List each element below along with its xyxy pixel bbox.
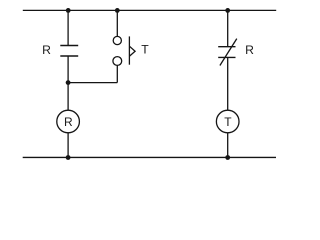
junction: top rail / left branch bbox=[66, 8, 71, 13]
pushbutton T actuator arrow bbox=[129, 46, 135, 56]
junction: top rail / pushbutton branch bbox=[115, 8, 120, 13]
junction: top rail / right branch bbox=[225, 8, 230, 13]
wire: timed contact down to coil T bbox=[227, 57, 229, 110]
pushbutton T contact circles bbox=[113, 36, 122, 65]
label R (left contact) bbox=[42, 43, 51, 57]
coil T (timer coil) bbox=[216, 110, 239, 133]
top rail bbox=[23, 9, 276, 11]
svg-text:T: T bbox=[141, 43, 149, 57]
wire: top rail down to pushbutton T bbox=[116, 10, 118, 36]
contact R (relay contact, capacitor-style plates) bbox=[60, 46, 78, 57]
svg-text:R: R bbox=[64, 115, 73, 129]
wire: coil R down to bottom rail bbox=[67, 133, 69, 158]
contact R timed (plates with diagonal slash) bbox=[218, 39, 237, 66]
label T (pushbutton) bbox=[141, 43, 149, 57]
svg-text:R: R bbox=[245, 43, 254, 57]
wire: junction A down to coil R bbox=[67, 83, 69, 111]
wire: top rail down to contact R bbox=[67, 10, 69, 45]
label R (right contact) bbox=[245, 43, 254, 57]
pushbutton T actuator bar bbox=[128, 36, 130, 64]
junction: bottom rail / coil T bbox=[225, 155, 230, 160]
wire: top rail down to timed contact R bbox=[227, 10, 229, 46]
wire: coil T down to bottom rail bbox=[227, 133, 229, 158]
junction: bottom rail / coil R bbox=[66, 155, 71, 160]
wire: contact R down to junction A bbox=[67, 56, 69, 83]
svg-text:T: T bbox=[224, 115, 232, 129]
bottom rail bbox=[23, 156, 276, 158]
wire: pushbutton T down to jumper bbox=[116, 65, 118, 82]
coil R bbox=[57, 110, 80, 133]
wire: jumper from pushbutton to junction A bbox=[68, 82, 117, 84]
svg-text:R: R bbox=[42, 43, 51, 57]
junction A: contact R / pushbutton / coil R bbox=[66, 80, 71, 85]
